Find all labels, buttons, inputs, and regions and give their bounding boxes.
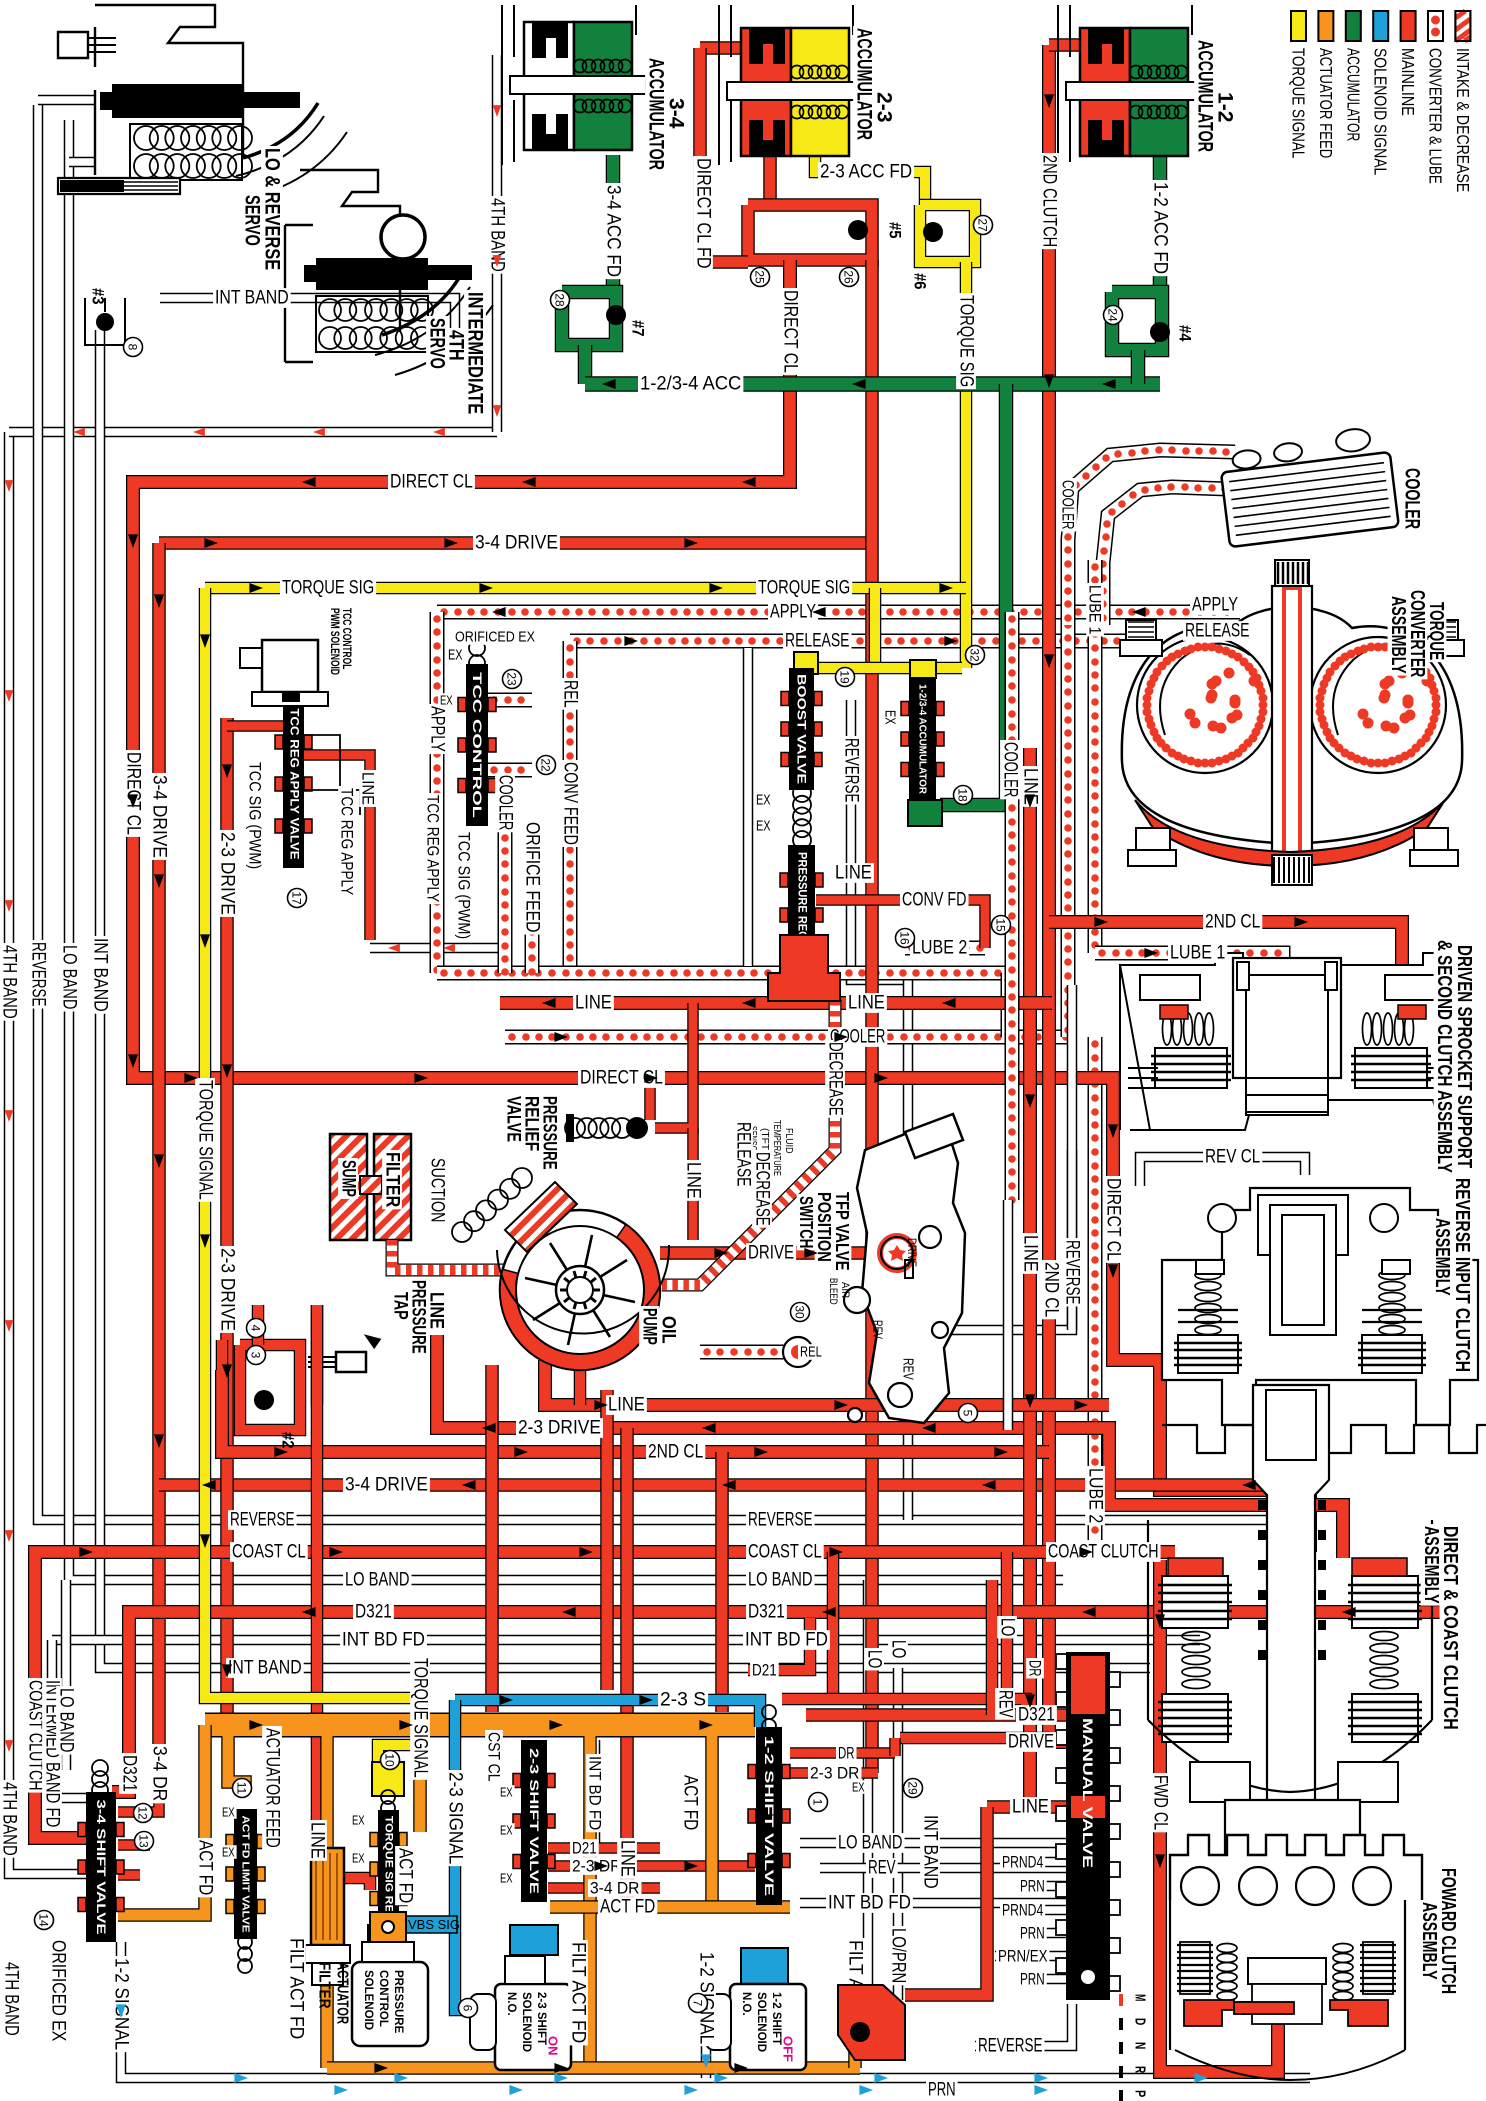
label LO blob — [868, 1994, 889, 2016]
svg-text:#5: #5 — [886, 222, 905, 238]
svg-text:COAST CLUTCH: COAST CLUTCH — [1048, 1542, 1159, 1563]
svg-text:DIRECT CL: DIRECT CL — [123, 752, 144, 835]
TFP VALVE POSITION SWITCH body — [857, 1128, 965, 1423]
1-2/3-4 accumulator valve yellow cap — [910, 660, 936, 678]
svg-text:2ND CL: 2ND CL — [1205, 912, 1260, 933]
wire LINE to manual valve — [987, 1800, 1066, 1814]
label LINE relief — [683, 1160, 704, 1201]
boost valve spring — [793, 784, 811, 849]
legend ACCUMULATOR swatch — [1346, 11, 1361, 41]
label INT BAND bus — [226, 1658, 304, 1679]
wire red drop x607 — [600, 1390, 614, 1690]
svg-text:R: R — [1132, 2066, 1149, 2073]
wire CONV FD stub — [816, 900, 985, 948]
label LO right3 — [997, 1616, 1018, 1638]
wire DIRECT CL FD vertical — [763, 150, 777, 205]
svg-text:DRIVE: DRIVE — [1008, 1732, 1054, 1753]
3-4 shift valve spring — [92, 1760, 108, 1798]
arrows 2nd clutch vert — [1044, 94, 1054, 668]
svg-text:M: M — [1132, 1994, 1149, 2001]
svg-text:17: 17 — [290, 891, 304, 905]
label LINE act — [307, 1820, 328, 1861]
label TCC SIG (PWM) right — [455, 830, 474, 941]
svg-text:ON: ON — [546, 2036, 561, 2056]
svg-text:TORQUE SIG REG: TORQUE SIG REG — [383, 1816, 395, 1922]
arrows lube1 — [1144, 948, 1158, 958]
MANUAL VALVE — [1056, 1652, 1120, 2000]
label D21 2-3v — [570, 1839, 599, 1858]
svg-text:ORIFICED EX: ORIFICED EX — [455, 629, 535, 646]
wire 1-2 sol orange riser — [848, 2005, 862, 2068]
valve BOOST — [781, 668, 822, 790]
svg-text:D21: D21 — [572, 1839, 597, 1858]
arrows apply dotted — [492, 607, 1146, 617]
svg-text:2-3 DRIVE: 2-3 DRIVE — [518, 1418, 601, 1439]
wire act fd limit feed — [228, 1736, 245, 1792]
arrows fwd cl — [1155, 1614, 1165, 1868]
label D321 right — [746, 1602, 787, 1623]
actuator filter cup — [305, 1945, 350, 1985]
svg-text:CONV FD: CONV FD — [902, 890, 967, 911]
svg-text:32: 32 — [968, 648, 982, 662]
title 2-3 ACCUMULATOR — [873, 90, 896, 125]
wire 3-4 DR link — [548, 1882, 660, 1894]
solenoid TCC CONTROL PWM — [240, 640, 328, 706]
wire cooler bus — [505, 1033, 1070, 1041]
valve TCC CONTROL — [458, 664, 496, 826]
1-2 shift valve top spring — [762, 1705, 776, 1733]
VBS SIG tag — [403, 1916, 460, 1933]
wire manual valve INT BD FD port — [800, 1898, 1066, 1909]
wire lube 1 vertical — [1091, 560, 1099, 953]
2-3 accumulator mount lines — [719, 5, 853, 165]
svg-text:COOLER: COOLER — [1000, 742, 1021, 797]
svg-text:D321: D321 — [748, 1602, 785, 1623]
arrows PRN channel blue — [334, 2085, 1048, 2095]
wire D321 bus — [112, 1612, 1440, 1792]
svg-text:DR: DR — [1026, 1660, 1045, 1676]
label EX 34v2 — [220, 1845, 237, 1860]
svg-text:LINE: LINE — [359, 772, 378, 805]
wire LO bus y1699 — [782, 1699, 1026, 1712]
svg-text:FILT ACT FD: FILT ACT FD — [568, 1942, 589, 2043]
svg-text:LINE: LINE — [1012, 1797, 1049, 1818]
svg-text:LUBE 1: LUBE 1 — [1170, 943, 1225, 964]
legend ACCUMULATOR text — [1343, 48, 1363, 141]
wire TCC loop left APPLY vertical — [433, 612, 441, 974]
svg-text:8: 8 — [126, 344, 140, 351]
svg-text:LUBE 2: LUBE 2 — [912, 938, 967, 959]
wire DIRECT CL FD top — [700, 48, 755, 62]
svg-text:VALVE: VALVE — [503, 1096, 524, 1142]
svg-text:3-4 DRIVE: 3-4 DRIVE — [345, 1475, 428, 1496]
wire TORQUE SIG bus — [205, 582, 966, 595]
label 2ND CL right — [1203, 912, 1262, 933]
svg-text:EX: EX — [756, 792, 771, 809]
label 1-2/3-4 ACC — [638, 374, 743, 395]
svg-text:EX: EX — [222, 1805, 235, 1820]
title 1-2 ACCUMULATOR — [1214, 90, 1237, 125]
svg-text:EX: EX — [500, 1823, 513, 1838]
label REV tfp2 — [900, 1356, 917, 1382]
label APPLY right — [1190, 595, 1240, 616]
svg-text:1: 1 — [811, 1799, 825, 1806]
svg-text:25: 25 — [753, 270, 767, 284]
label DIRECT CL top — [388, 472, 475, 493]
wire boost valve feed — [869, 588, 882, 668]
ACTUATOR FILTER box — [311, 1848, 344, 1945]
label TCC REG APPLY right — [424, 793, 443, 904]
wire cooler riser — [1004, 973, 1012, 1038]
svg-text:ORIFICED EX: ORIFICED EX — [48, 1940, 69, 2042]
svg-text:DRIVE: DRIVE — [905, 1238, 919, 1267]
svg-text:MAINLINE: MAINLINE — [1398, 48, 1418, 116]
wire ACT FD 1-2 valve link — [550, 1900, 790, 1914]
svg-text:24: 24 — [1106, 308, 1120, 322]
pump body outline — [497, 1245, 669, 1334]
svg-text:ASSEMBLY: ASSEMBLY — [1431, 1218, 1453, 1296]
wire direct cl fd right vertical — [865, 260, 879, 1773]
arrows drive tfp — [714, 1248, 818, 1258]
title INTERMEDIATE 4TH SERVO — [464, 290, 487, 416]
svg-text:POSITION: POSITION — [814, 1192, 834, 1262]
wire SUCTION channel — [392, 1240, 508, 1270]
wire 2ND CL bus lower — [222, 1370, 1049, 1452]
ball #6 — [923, 222, 943, 242]
wire servo reverse stub — [38, 95, 95, 106]
label 4TH BAND lowest — [1, 1960, 22, 2038]
svg-text:3-4 ACC FD: 3-4 ACC FD — [603, 185, 624, 277]
arrows orange bottom — [374, 2063, 748, 2073]
wire LO riser x992 — [986, 1580, 999, 1715]
2-3 accumulator — [727, 28, 863, 156]
svg-text:APPLY: APPLY — [1192, 595, 1238, 616]
label EX boost2 — [754, 818, 773, 835]
label LUBE 2 regvalve — [910, 938, 969, 959]
wire LINE bus y1405 — [545, 1360, 1109, 1405]
svg-text:REVERSE: REVERSE — [748, 1510, 813, 1531]
label LO BAND right — [746, 1570, 815, 1591]
svg-text:14: 14 — [37, 1913, 51, 1927]
title FLUID TEMPERATURE (TFT) SENSOR — [783, 1128, 795, 1154]
label ORIFICED EX — [453, 629, 537, 646]
svg-text:5: 5 — [961, 1410, 975, 1417]
svg-text:TCC REG APPLY: TCC REG APPLY — [338, 788, 357, 895]
svg-text:SERVO: SERVO — [241, 195, 264, 246]
wire #2 loop — [240, 1345, 300, 1430]
pressure relief valve — [565, 1118, 632, 1138]
label COAST CLUTCH — [1046, 1542, 1161, 1563]
svg-text:LINE: LINE — [575, 993, 612, 1014]
label INTERMED BAND FD — [42, 1678, 63, 1829]
svg-text:INT BAND: INT BAND — [228, 1658, 302, 1679]
ball #1 — [838, 1985, 905, 2060]
ball #4 — [1150, 322, 1170, 342]
arrows bottom channel blue — [234, 2073, 1208, 2083]
title SUMP — [338, 1158, 359, 1199]
svg-text:3-4 DR: 3-4 DR — [590, 1879, 639, 1898]
svg-text:REL: REL — [560, 680, 581, 708]
svg-text:LINE: LINE — [1020, 1235, 1041, 1272]
label COAST CL right — [746, 1542, 824, 1563]
wire 3-4 DRIVE vertical — [152, 543, 166, 1798]
wire 2-3 SIGNAL vertical — [455, 1700, 505, 2010]
label 4TH BAND top — [487, 196, 508, 274]
REVERSE INPUT CLUTCH ASSEMBLY — [1162, 1188, 1486, 1453]
svg-text:TORQUE SIGNAL: TORQUE SIGNAL — [195, 1080, 216, 1200]
wire cooler vertical — [1064, 621, 1072, 1037]
wire 1-2 signal right channel — [701, 2010, 712, 2078]
label INT BD FD 1-2v — [826, 1893, 913, 1914]
label 3-4 ACC FD — [603, 183, 624, 279]
label DECREASE pump — [752, 1150, 773, 1228]
label 1-2 SIGNAL right — [696, 1950, 717, 2046]
wire lube 2 stub — [905, 944, 985, 952]
svg-text:SOLENOID: SOLENOID — [520, 1992, 532, 2052]
svg-text:16: 16 — [898, 931, 912, 945]
svg-text:DIRECT CL: DIRECT CL — [1103, 1178, 1124, 1261]
title ACTUATOR FILTER — [334, 1962, 351, 2024]
label DIRECT CL mid — [578, 1068, 665, 1089]
label LO right2 — [888, 1638, 909, 1660]
svg-text:EX: EX — [500, 1785, 513, 1800]
wire DRIVE bus TFP — [660, 1246, 888, 1260]
svg-text:PRN: PRN — [1020, 1877, 1045, 1896]
label TORQUE SIG right — [756, 578, 852, 599]
wire TCC control stub2 — [487, 766, 532, 774]
svg-text:27: 27 — [976, 218, 990, 232]
wire 3-4 sv stub2 — [118, 1869, 140, 1881]
svg-text:COAST CL: COAST CL — [748, 1542, 822, 1563]
wire 3-4 sv stub1 — [118, 1839, 150, 1851]
arrows tcc exhaust — [388, 944, 455, 953]
svg-text:LUBE 2: LUBE 2 — [1085, 1468, 1106, 1523]
label ACT FD x690 — [680, 1773, 701, 1832]
svg-text:DIRECT CL: DIRECT CL — [780, 290, 801, 373]
svg-text:REVERSE INPUT CLUTCH: REVERSE INPUT CLUTCH — [1451, 1178, 1473, 1372]
wire LINE bus y1003 — [500, 996, 1052, 1010]
label PRN 6 — [1018, 1970, 1047, 1989]
DIRECT & COAST CLUTCH ASSEMBLY — [1148, 1385, 1432, 1890]
label 3-4 DRIVE left vert — [149, 773, 170, 860]
valve 3-4 SHIFT — [78, 1792, 124, 1942]
SUMP box — [330, 1134, 367, 1240]
label LUBE 1 conv — [1086, 583, 1105, 636]
arrows 12sig channel blue — [701, 2054, 711, 2068]
svg-text:LINE: LINE — [683, 1162, 704, 1199]
wire red drop x722 — [715, 1452, 729, 1712]
title FOWARD CLUTCH — [1437, 1866, 1459, 1996]
svg-text:COOLER: COOLER — [495, 775, 516, 830]
svg-text:REVERSE: REVERSE — [230, 1510, 295, 1531]
title TORQUE CONVERTER ASSEMBLY — [1425, 600, 1447, 662]
wire 2ND CL feed from accumulator — [1049, 38, 1085, 52]
label D21 left bus — [750, 1661, 779, 1680]
wire TORQUE SIGNAL vertical — [205, 588, 420, 1795]
arrows d21 links — [594, 1861, 698, 1871]
svg-text:DECREASE: DECREASE — [825, 1042, 846, 1116]
label 1-2 SIGNAL left — [111, 1956, 132, 2052]
wire LINE vertical right — [1023, 748, 1037, 1807]
svg-text:& SECOND CLUTCH ASSEMBLY: & SECOND CLUTCH ASSEMBLY — [1433, 940, 1455, 1173]
svg-text:4TH BAND: 4TH BAND — [0, 945, 20, 1019]
label REVERSE left — [28, 940, 49, 1009]
ball #7 — [606, 305, 626, 325]
label INT BAND top — [213, 288, 291, 309]
svg-text:D321: D321 — [119, 1755, 140, 1792]
label LINE manual — [1010, 1797, 1051, 1818]
svg-text:RELEASE: RELEASE — [785, 631, 850, 652]
wire boost valve yellow link — [806, 662, 962, 675]
wire filter to band — [320, 1945, 334, 2068]
wire TCC loop REL vertical — [566, 641, 574, 976]
svg-text:3: 3 — [249, 1352, 263, 1359]
svg-text:TCC SIG (PWM): TCC SIG (PWM) — [246, 762, 265, 869]
act fd limit valve spring — [238, 1935, 252, 1973]
svg-text:CST CL: CST CL — [485, 1732, 504, 1781]
wire TFP REV channel a — [875, 1310, 886, 1400]
label ACTUATOR FEED — [262, 1726, 283, 1850]
svg-text:23: 23 — [505, 672, 519, 686]
svg-text:2ND CLUTCH: 2ND CLUTCH — [1039, 155, 1060, 247]
svg-text:REV: REV — [871, 1320, 886, 1339]
svg-text:4: 4 — [249, 1325, 263, 1332]
wire 4TH BAND top horizontal — [9, 427, 497, 438]
wire 2-3 sol link — [524, 1955, 536, 1990]
label ACT FD left — [195, 1838, 216, 1897]
label PRND4 1 — [1000, 1853, 1045, 1872]
svg-text:PRN: PRN — [1020, 1924, 1045, 1943]
wire cooler arc outer — [1064, 446, 1235, 625]
#3 loop — [85, 298, 125, 345]
wire INT BAND left vertical + bus — [100, 330, 1150, 1668]
node #2 ball — [254, 1390, 274, 1410]
valve TORQUE SIG REG — [370, 1810, 407, 1928]
svg-text:LINE: LINE — [617, 1840, 638, 1877]
valve ACT FD LIMIT — [226, 1809, 265, 1939]
title PRESSURE RELIEF VALVE — [539, 1094, 560, 1172]
label 2-3 DRIVE low vert — [217, 1246, 238, 1333]
label FILT ACT FD 2 — [845, 1938, 866, 2043]
wire REVERSE left vertical + bus — [38, 105, 1300, 1520]
svg-text:ACTUATOR: ACTUATOR — [334, 1962, 351, 2024]
wire D21 shift valve link — [548, 1842, 660, 1854]
wire LO/PRN channel — [893, 1668, 904, 2000]
wire act fd bottom band — [327, 2061, 860, 2075]
label PRN 4 — [1018, 1924, 1047, 1943]
svg-text:INT BD FD: INT BD FD — [342, 1630, 425, 1651]
label 3-4 DRIVE bus — [343, 1475, 430, 1496]
svg-text:11: 11 — [235, 1782, 249, 1795]
label RELEASE right — [1183, 621, 1252, 642]
arrows coast cl bus — [79, 1547, 1093, 1557]
svg-text:REV CL: REV CL — [1205, 1147, 1260, 1168]
label CST CL — [485, 1730, 504, 1783]
label TORQUE SIGNAL vert — [195, 1078, 216, 1202]
PRESSURE CONTROL SOLENOID — [352, 1962, 428, 2046]
arrows 3-4 drive vert — [154, 594, 164, 1448]
wire tap link — [311, 1305, 324, 1405]
svg-text:3-4 SHIFT VALVE: 3-4 SHIFT VALVE — [94, 1800, 108, 1935]
wire pressure relief feed — [644, 1078, 656, 1120]
svg-text:22: 22 — [539, 758, 553, 772]
valve TCC REG APPLY — [275, 700, 312, 868]
label DIRECT CL left vert — [123, 750, 144, 837]
svg-text:DRIVE: DRIVE — [748, 1243, 794, 1264]
svg-text:N.O.: N.O. — [740, 1992, 752, 2016]
label RELEASE left — [783, 631, 852, 652]
arrows direct cl mid — [184, 1073, 888, 1083]
arrows torque signal vert — [200, 634, 210, 1548]
svg-text:BOOST VALVE: BOOST VALVE — [795, 674, 809, 784]
svg-text:PRN: PRN — [928, 2080, 956, 2101]
label REV 1-2v — [866, 1858, 898, 1879]
valve 1-2 SHIFT — [748, 1727, 790, 1905]
wire REVERSE right channel c — [903, 1330, 914, 1520]
svg-text:D321: D321 — [355, 1602, 392, 1623]
title FILTER — [382, 1150, 403, 1209]
arrows 2nd cl lower — [274, 1447, 1008, 1457]
label COAST CL left — [230, 1542, 308, 1563]
2-3 shift valve blue cap — [510, 1925, 558, 1955]
svg-text:1-2/3-4 ACC: 1-2/3-4 ACC — [640, 374, 741, 395]
wire 2ND CL bus right — [1049, 922, 1402, 1008]
svg-text:CONVERTER & LUBE: CONVERTER & LUBE — [1426, 48, 1446, 184]
wire REVERSE right channel a — [851, 700, 908, 980]
label LO BAND left — [343, 1570, 412, 1591]
wire INT BD FD bus — [52, 1635, 1200, 1646]
wire act fd filter drop — [320, 1736, 334, 1848]
svg-text:2-3 SIGNAL: 2-3 SIGNAL — [445, 1772, 466, 1864]
svg-text:#6: #6 — [911, 273, 930, 289]
svg-text:1-2 SHIFT VALVE: 1-2 SHIFT VALVE — [762, 1736, 776, 1896]
svg-text:TAP: TAP — [390, 1292, 411, 1320]
wire PRND4 port 1 — [1000, 1857, 1066, 1868]
svg-text:SOLENOID SIGNAL: SOLENOID SIGNAL — [1371, 48, 1391, 176]
label DECREASE reg — [825, 1040, 846, 1118]
wire 2-3 ACC FD — [815, 150, 925, 205]
svg-text:OFF: OFF — [781, 2036, 796, 2062]
label REL vert — [560, 678, 581, 710]
legend CONVERTER & LUBE text — [1426, 48, 1446, 184]
label EX tcc2 — [438, 693, 455, 708]
label COOLER vert — [495, 773, 516, 832]
svg-text:D21: D21 — [752, 1661, 777, 1680]
label ORIFICE FEED vert — [522, 820, 543, 935]
svg-text:P: P — [1132, 2090, 1149, 2097]
label INT BD FD right — [743, 1630, 830, 1651]
wire LO channel — [863, 1580, 874, 1985]
wire LINE to torque sig reg — [317, 1305, 370, 1890]
wire #2 riser — [252, 1305, 265, 1345]
svg-text:CONTROL: CONTROL — [377, 1970, 389, 2027]
label #7 — [629, 320, 648, 336]
label FILT ACT FD 1 — [568, 1940, 589, 2045]
svg-text:VBS SIG: VBS SIG — [408, 1917, 460, 1932]
label FILT ACT FD 3 — [286, 1936, 307, 2041]
svg-text:MANUAL VALVE: MANUAL VALVE — [1080, 1718, 1096, 1868]
label LINE x627 — [617, 1838, 638, 1879]
wire pump to 2nd cl — [216, 1340, 229, 1370]
wire accumulator valve green feed — [940, 384, 1006, 805]
svg-text:19: 19 — [838, 670, 852, 684]
legend SOLENOID SIGNAL swatch — [1373, 11, 1388, 41]
accumulator valve green cap — [908, 800, 942, 826]
svg-text:LO/PRN: LO/PRN — [888, 1928, 909, 1983]
wire 3-4 DRIVE bus — [159, 1485, 1305, 1528]
svg-text:INT BAND: INT BAND — [215, 288, 289, 309]
valve PRESSURE REG — [780, 845, 823, 985]
